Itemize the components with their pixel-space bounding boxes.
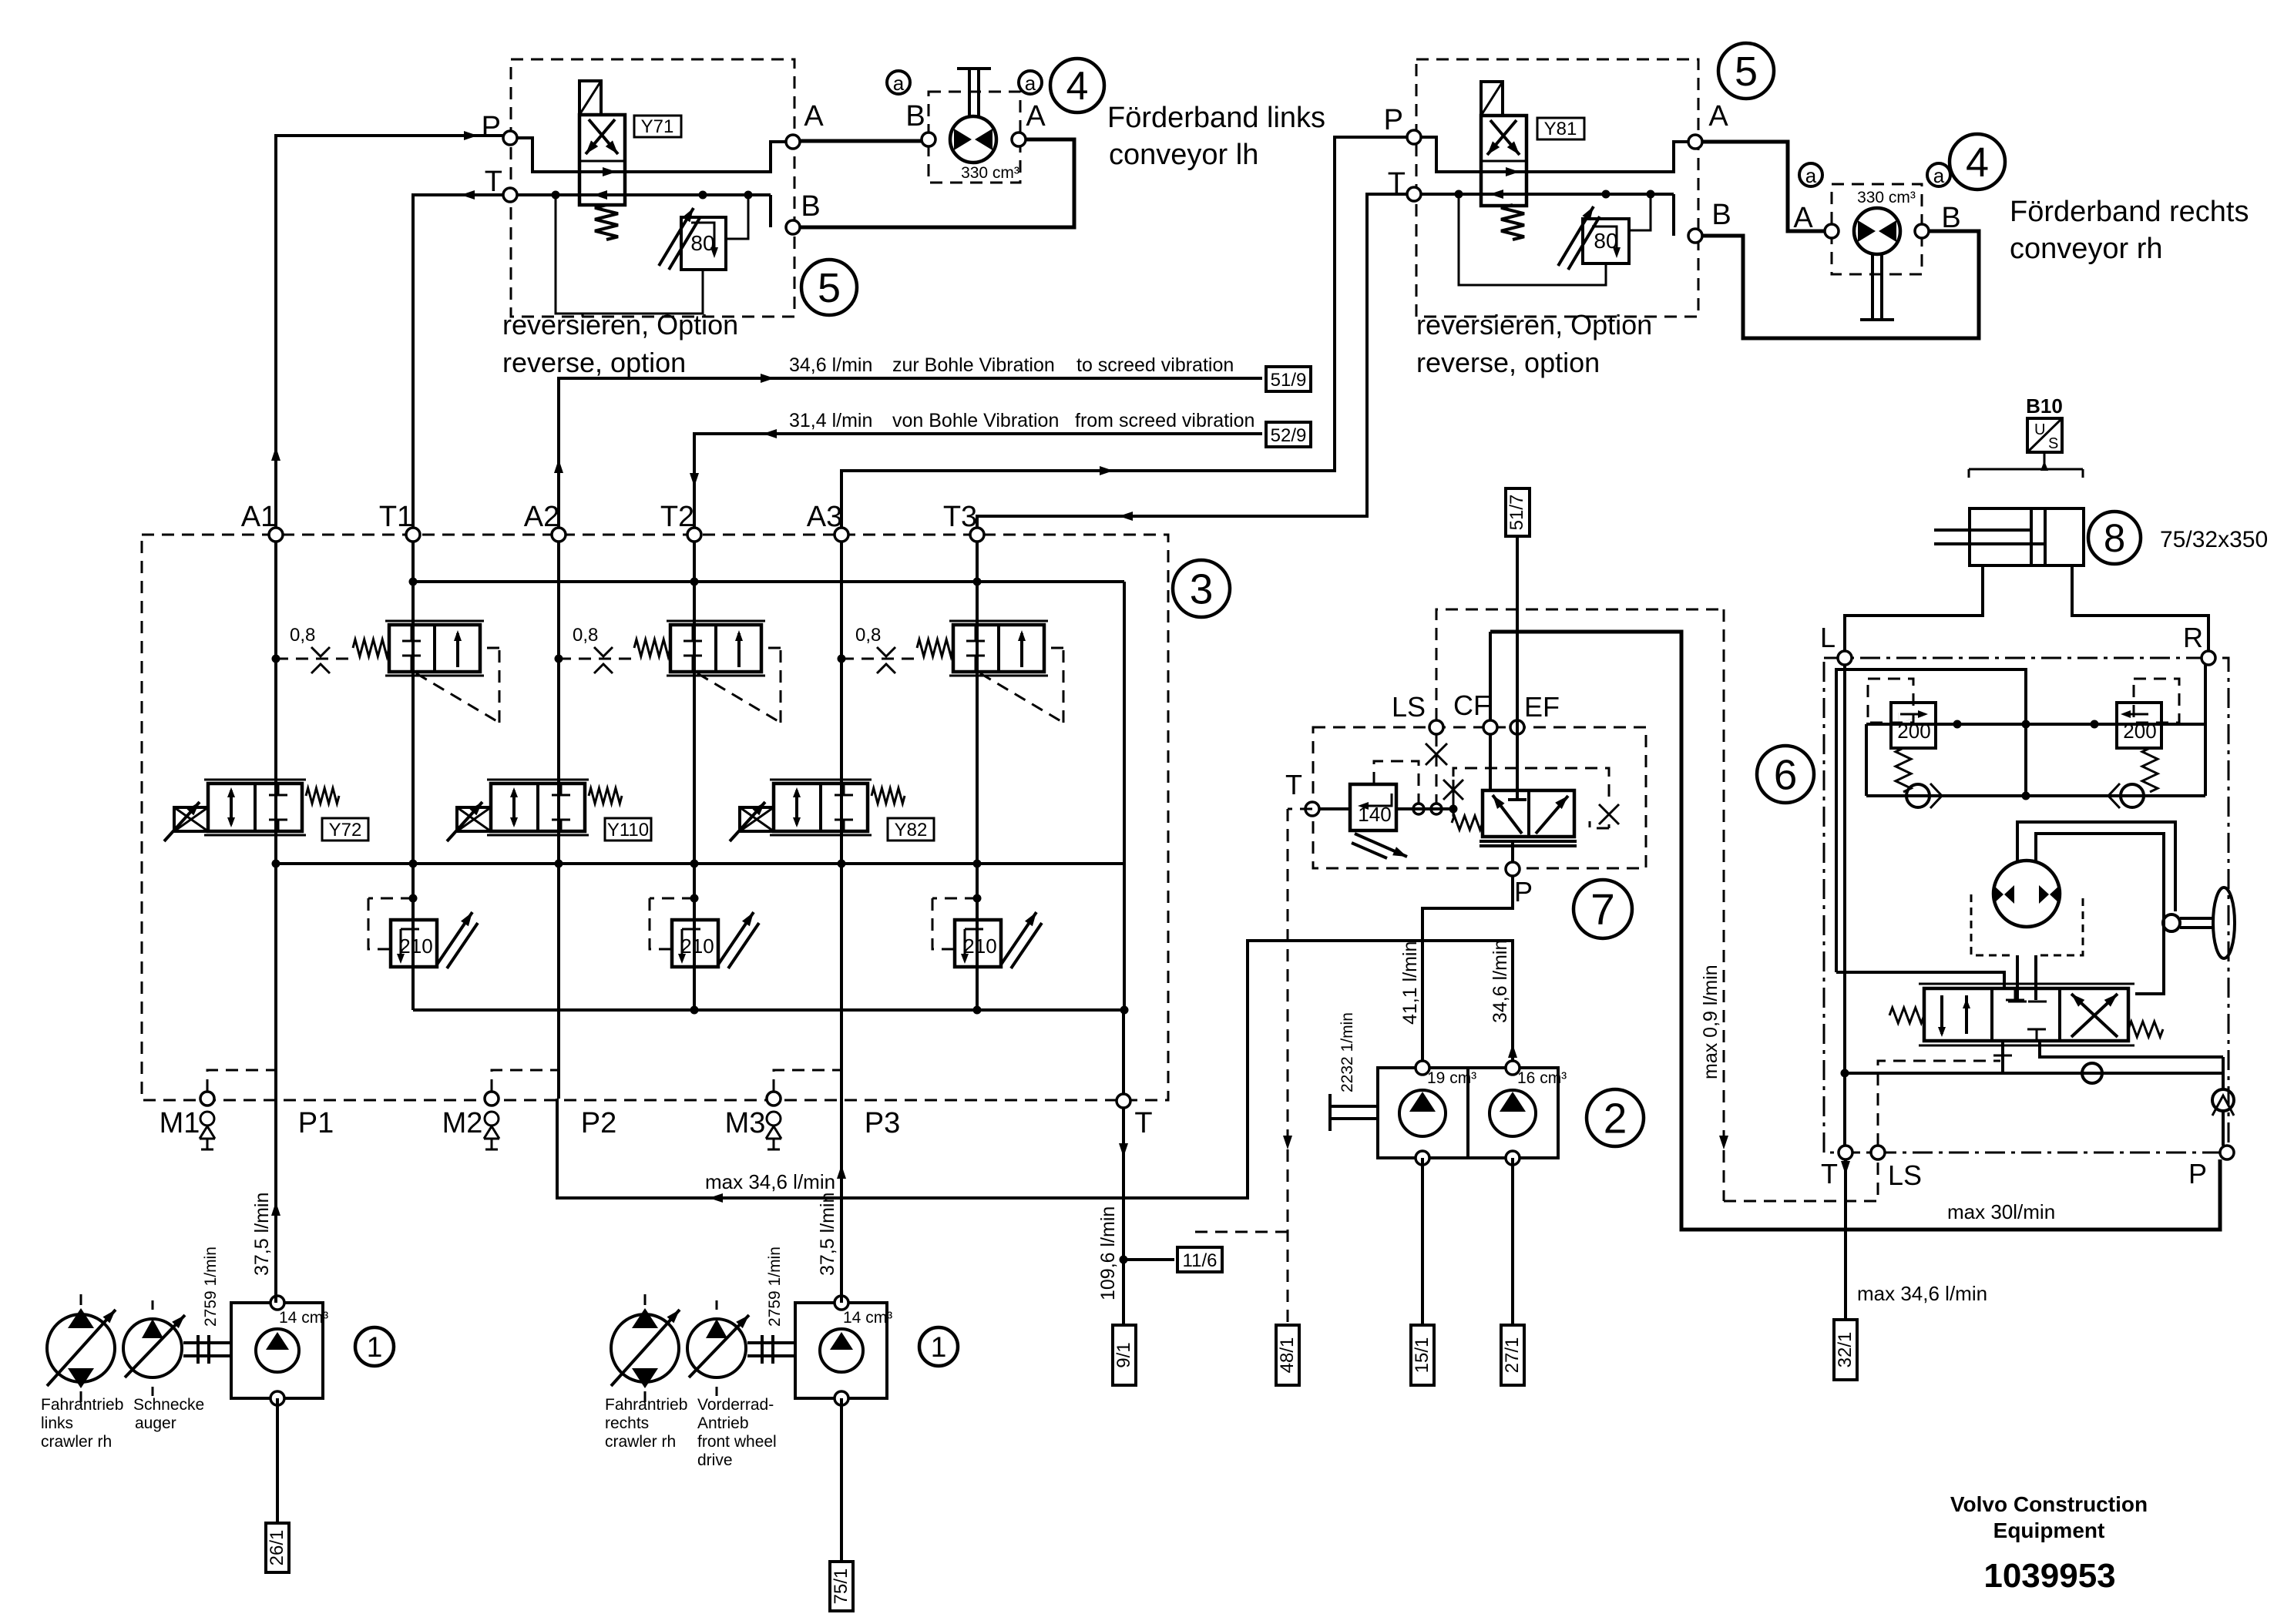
wire T to T1 riser (413, 195, 503, 535)
wire B to T right (1672, 194, 1675, 236)
variable arrow relief 80 right (1558, 206, 1594, 266)
hydraulic motor circle right (1854, 208, 1900, 254)
wire P3 riser to pump (840, 1099, 843, 1303)
label box Y72 (322, 818, 368, 841)
wire pump to 27/1 (1511, 1158, 1514, 1325)
variable arrow through relief 80 (659, 208, 694, 266)
steering feed to spool (1836, 972, 2004, 988)
test coupling symbol (200, 1112, 214, 1126)
circle 6 (1757, 746, 1814, 803)
svg-text:4: 4 (1066, 64, 1089, 109)
svg-text:27/1: 27/1 (1502, 1337, 1523, 1374)
cylinder 8 body (1970, 508, 2084, 565)
svg-text:37,5 l/min: 37,5 l/min (817, 1193, 838, 1276)
wire A3 to right valve P (841, 137, 1407, 535)
svg-text:B10: B10 (2026, 394, 2063, 418)
port T3 (970, 528, 984, 542)
svg-text:2232 1/min: 2232 1/min (1338, 1012, 1356, 1092)
valve Y72 solenoid (174, 807, 208, 831)
connector box 75/1 (830, 1562, 853, 1611)
gear pump circle 14cm3 (256, 1329, 299, 1372)
svg-text:from screed vibration: from screed vibration (1075, 410, 1254, 431)
svg-text:Antrieb: Antrieb (697, 1414, 749, 1432)
T bus steering (1845, 1072, 2223, 1075)
pilot dashed line section 3 (841, 658, 919, 660)
valve Y71 body (579, 115, 625, 205)
svg-text:LS: LS (1888, 1159, 1922, 1191)
wire pump to 15/1 (1421, 1158, 1424, 1325)
relief valve 80 right box (1583, 219, 1629, 263)
svg-text:A2: A2 (524, 501, 559, 533)
crossed arrows in Y71 upper cell (586, 119, 615, 154)
svg-text:16 cm³: 16 cm³ (1517, 1069, 1567, 1087)
svg-text:Y71: Y71 (641, 116, 674, 137)
sensor bracket (1969, 468, 2083, 471)
wire valve A right to motor A (1702, 142, 1825, 231)
svg-text:a: a (1025, 72, 1036, 95)
svg-text:1039953: 1039953 (1983, 1557, 2115, 1595)
port T of block 3 (1117, 1094, 1130, 1108)
circle 3 (1173, 560, 1230, 617)
svg-text:reverse, option: reverse, option (1416, 347, 1600, 378)
relief bus steering (1866, 723, 2205, 726)
svg-text:P: P (1384, 104, 1403, 136)
svg-text:CF: CF (1453, 690, 1490, 721)
port EF block7 (1510, 720, 1524, 734)
svg-text:34,6 l/min: 34,6 l/min (789, 354, 872, 376)
CF riser (1489, 632, 1492, 720)
circle 4 right (1950, 134, 2005, 190)
relief valve 140 box (1350, 784, 1396, 830)
svg-text:51/9: 51/9 (1271, 370, 1307, 391)
port R (2202, 651, 2215, 665)
svg-text:T2: T2 (660, 501, 694, 533)
svg-text:drive: drive (697, 1451, 733, 1469)
wire pump to connector (276, 1398, 279, 1523)
port T2 (687, 528, 701, 542)
test coupling symbol (485, 1112, 499, 1126)
check valve left steering (1906, 784, 1930, 807)
valve Y110 spring (589, 788, 622, 804)
valve Y82 arrows (795, 790, 798, 824)
port B left valve (786, 220, 800, 234)
svg-text:reversieren, Option: reversieren, Option (502, 309, 738, 341)
reducing valve symbols section 2 (692, 625, 694, 641)
dashed pilot to M port (492, 1070, 559, 1092)
svg-text:T: T (1134, 1107, 1152, 1139)
arrow inside relief 80 right (1592, 226, 1617, 254)
svg-text:210: 210 (963, 934, 996, 958)
reducing valve pilot dash section 2 (697, 673, 781, 723)
svg-text:max 34,6 l/min: max 34,6 l/min (705, 1170, 835, 1193)
wire motor B loop right (1702, 231, 1979, 338)
valve Y110 arrows (512, 790, 516, 824)
circle 2 (1587, 1089, 1644, 1146)
relief valve 210 section 1 pilot dash (368, 898, 413, 900)
circle 7 (1574, 880, 1632, 938)
wire T line through right valve (1421, 193, 1674, 196)
svg-text:Y72: Y72 (329, 820, 362, 841)
measuring port M1 (200, 1092, 214, 1106)
valve Y72 arrows (230, 790, 233, 824)
right edge of inner block (1123, 582, 1126, 1010)
valve Y82 spring (872, 788, 905, 804)
pilot loop relief 80 right (1459, 194, 1606, 285)
inline check valve steering (2082, 1063, 2102, 1083)
connector box 51/7 (1506, 488, 1530, 536)
svg-text:M2: M2 (442, 1107, 483, 1139)
svg-text:reversieren, Option: reversieren, Option (1416, 309, 1652, 341)
relief valve 210 section 2 pilot dash (650, 898, 694, 900)
wire T down to 9/1 (1122, 1108, 1125, 1325)
dash-dot boundary of steering block 6 (1824, 658, 2229, 1153)
relief valve 210 section 2 box (672, 920, 718, 967)
valve Y82 solenoid (740, 807, 774, 831)
connector box 48/1 (1276, 1325, 1299, 1385)
priority valve arrows (1493, 795, 1522, 834)
port T left valve (503, 188, 517, 202)
wire column T3 (976, 542, 979, 1010)
connector box 11/6 (1177, 1247, 1222, 1272)
svg-text:4: 4 (1966, 139, 1989, 186)
svg-text:Förderband rechts: Förderband rechts (2010, 196, 2249, 228)
svg-text:A: A (1708, 100, 1728, 133)
steering inner feed lines (1836, 669, 2026, 972)
reducing valve body section 2 (670, 625, 761, 672)
main variable pump circle (611, 1314, 679, 1382)
svg-text:52/9: 52/9 (1271, 425, 1307, 446)
wire von Bohle Vibration to T2 (694, 434, 1262, 535)
gerotor frame dashed (1971, 894, 2013, 955)
EF line into valve (1516, 536, 1519, 800)
port T block7 (1305, 802, 1319, 816)
arrow on P feed (464, 131, 478, 140)
motor shaft left (968, 69, 971, 117)
small circle a left1 (887, 71, 910, 94)
svg-text:reverse, option: reverse, option (502, 347, 686, 378)
reducing valve symbols section 3 (975, 625, 977, 641)
svg-text:P1: P1 (298, 1107, 334, 1139)
throttle to pilot (1453, 780, 1455, 809)
svg-text:max 0,9 l/min: max 0,9 l/min (1700, 965, 1721, 1079)
svg-text:von Bohle Vibration: von Bohle Vibration (892, 410, 1059, 431)
connector box 52/9 (1266, 422, 1311, 447)
test coupling symbol (767, 1112, 781, 1126)
svg-text:to screed vibration: to screed vibration (1076, 354, 1234, 376)
solenoid of valve Y71 (579, 81, 601, 115)
svg-text:auger: auger (135, 1414, 176, 1432)
motor port B left (922, 133, 935, 146)
hydraulic motor circle left (950, 116, 996, 163)
pump 19cm3 circle (1399, 1090, 1446, 1136)
motor 330cm3 left dashed box (929, 92, 1020, 183)
aux pump circle (687, 1319, 746, 1377)
svg-text:31,4 l/min: 31,4 l/min (789, 410, 872, 431)
svg-text:a: a (1805, 164, 1817, 187)
pilot loop relief 80 to T line (556, 195, 703, 314)
svg-text:B: B (1711, 199, 1731, 231)
aux pump circle (123, 1319, 182, 1377)
svg-text:rechts: rechts (605, 1414, 649, 1432)
spool underline block7 (1480, 840, 1577, 843)
svg-text:a: a (1933, 164, 1945, 187)
LS dashed internal steering (1878, 1061, 2000, 1146)
T drain dashed to 48/1 (1288, 808, 1312, 810)
steering wheel (2213, 887, 2235, 958)
svg-text:34,6 l/min: 34,6 l/min (1490, 940, 1511, 1023)
spool bottom to T bus (2001, 1041, 2004, 1073)
wire B to T line (769, 195, 772, 227)
gerotor feedback lines (2017, 822, 2175, 911)
wire column A2 (557, 542, 560, 1099)
sensor B10 box (2027, 418, 2062, 452)
solenoid valve Y82 body (774, 783, 868, 831)
small circle a right1 (1799, 163, 1822, 186)
wire zur Bohle Vibration from A2 (559, 378, 1262, 535)
svg-text:Equipment: Equipment (1993, 1518, 2105, 1542)
pump 16cm3 circle (1490, 1090, 1536, 1136)
motor port B right (1915, 224, 1929, 238)
spool top links (2016, 955, 2019, 1000)
relief valve 200 right (2117, 703, 2161, 748)
reducing valve section 1 spring (353, 639, 389, 656)
spring of priority valve (1452, 816, 1483, 830)
gear pump circle 14cm3 (820, 1329, 863, 1372)
port P steering (2220, 1146, 2234, 1159)
steering inner left column (1843, 665, 1846, 1146)
circle 5 left (801, 260, 857, 315)
svg-text:80: 80 (690, 231, 714, 255)
connector box 51/9 (1266, 367, 1311, 391)
dashed box of block 7 (1313, 727, 1646, 868)
svg-text:210: 210 (680, 934, 714, 958)
cylinder piston (2030, 508, 2033, 565)
svg-text:U: U (2034, 421, 2045, 438)
svg-text:51/7: 51/7 (1506, 495, 1527, 531)
tandem pump box (1378, 1068, 1558, 1158)
pump unit box at x360 (231, 1303, 323, 1398)
svg-text:1: 1 (367, 1331, 383, 1363)
port CF block7 (1483, 720, 1497, 734)
svg-text:A: A (804, 100, 824, 133)
label box Y81 (1537, 118, 1584, 139)
wire pump to connector (840, 1398, 843, 1562)
main variable pump circle (47, 1314, 115, 1382)
svg-text:75/1: 75/1 (831, 1569, 851, 1605)
reducing valve section 2 spring (634, 639, 670, 656)
svg-text:R: R (2183, 622, 2203, 653)
relief 210 variable arrow section 2 (718, 912, 754, 965)
svg-text:19 cm³: 19 cm³ (1427, 1069, 1476, 1087)
relief 200 right pilot dash (2134, 679, 2179, 723)
wire T line through valve (517, 193, 771, 196)
svg-text:6: 6 (1774, 750, 1798, 798)
motor 330cm3 right dashed box (1832, 184, 1922, 274)
svg-text:Y82: Y82 (895, 820, 928, 841)
svg-text:crawler rh: crawler rh (605, 1433, 676, 1451)
svg-text:Förderband links: Förderband links (1107, 102, 1325, 134)
wire column A1 (274, 542, 277, 1099)
svg-text:37,5 l/min: 37,5 l/min (251, 1193, 273, 1276)
junction dots on T line (552, 191, 560, 200)
relief valve 210 section 1 box (391, 920, 437, 967)
svg-text:2759 1/min: 2759 1/min (202, 1247, 220, 1327)
wire T steering to 32/1 (1844, 1159, 1847, 1320)
svg-text:front wheel: front wheel (697, 1433, 777, 1451)
svg-text:32/1: 32/1 (1835, 1332, 1856, 1368)
svg-text:0,8: 0,8 (290, 625, 315, 646)
svg-text:330 cm³: 330 cm³ (1857, 189, 1916, 206)
top bus of block 3 (413, 580, 1124, 583)
arrow on T return (461, 190, 475, 200)
pump shaft (183, 1341, 231, 1344)
relief 200 left pilot dash (1868, 679, 1913, 723)
svg-text:LS: LS (1392, 691, 1426, 723)
wire P through valve to A (517, 138, 786, 172)
reducing valve pilot dash section 1 (416, 673, 499, 723)
svg-text:B: B (905, 100, 925, 133)
svg-text:T3: T3 (943, 501, 977, 533)
port A3 (835, 528, 848, 542)
arrow inside relief 80 (691, 223, 714, 254)
reducing valve section 3 spring (917, 639, 953, 656)
svg-text:P: P (2188, 1158, 2207, 1189)
svg-text:M3: M3 (725, 1107, 766, 1139)
dashed pilot to M port (207, 1070, 276, 1092)
circled 1 (919, 1327, 958, 1366)
port A right valve (1688, 135, 1702, 149)
check valve right steering (2121, 784, 2144, 807)
label box Y82 (888, 818, 934, 841)
motor port A left (1012, 133, 1026, 146)
svg-text:75/32x350: 75/32x350 (2160, 527, 2268, 552)
svg-text:max 34,6 l/min: max 34,6 l/min (1857, 1282, 1987, 1305)
P column with check valve (2222, 1057, 2225, 1089)
connector box 9/1 (1113, 1325, 1136, 1385)
circle 8 (2088, 512, 2141, 564)
wire A1 riser to P (276, 136, 503, 535)
svg-text:A: A (1026, 100, 1046, 133)
wire T column of block3 (1122, 1010, 1125, 1094)
svg-text:L: L (1820, 622, 1836, 653)
svg-text:Fahrantrieb: Fahrantrieb (605, 1396, 687, 1414)
solenoid valve Y110 body (491, 783, 585, 831)
svg-text:26/1: 26/1 (267, 1530, 287, 1566)
relief valve 210 section 3 box (955, 920, 1001, 967)
port P block7 (1506, 862, 1520, 876)
relief valve 200 left (1891, 703, 1936, 748)
spool right cell crossed arrows (2071, 994, 2118, 1037)
svg-text:14 cm³: 14 cm³ (279, 1309, 328, 1327)
valve Y72 spring (306, 788, 339, 804)
svg-text:T: T (1388, 167, 1406, 200)
pump unit box at x1092 (795, 1303, 887, 1398)
connector box 26/1 (266, 1523, 289, 1572)
reducing valve pilot dash section 3 (980, 673, 1063, 723)
port T right valve (1407, 187, 1421, 201)
port L (1838, 651, 1852, 665)
port T steering (1839, 1146, 1852, 1159)
port P left valve (503, 131, 517, 145)
pilot dashed line section 2 (559, 658, 636, 660)
svg-text:B: B (801, 190, 820, 223)
circled 1 (355, 1327, 394, 1366)
svg-text:210: 210 (399, 934, 432, 958)
relief 200 left spring (1896, 748, 1911, 792)
circle 4 left (1050, 59, 1104, 112)
valve Y81 body (1481, 116, 1527, 206)
svg-text:3: 3 (1190, 565, 1214, 612)
LS dashed riser inside block7 (1436, 734, 1438, 804)
wire cylinder to R (2072, 565, 2208, 651)
small circle a left2 (1019, 71, 1042, 94)
svg-text:48/1: 48/1 (1277, 1337, 1298, 1374)
svg-text:Y110: Y110 (607, 820, 649, 841)
svg-text:9/1: 9/1 (1113, 1342, 1134, 1367)
port T1 (406, 528, 420, 542)
svg-text:P: P (1514, 876, 1533, 908)
port A2 (552, 528, 566, 542)
spool left cell arrows (1940, 995, 1943, 1034)
reducing valve body section 1 (389, 625, 480, 672)
svg-text:109,6 l/min: 109,6 l/min (1097, 1206, 1119, 1300)
circle 5 right (1718, 43, 1774, 99)
gerotor metering unit (1993, 861, 2060, 927)
adjust arrow below 140 (1355, 834, 1407, 857)
spring below Y81 (1501, 205, 1524, 240)
wire cylinder to L (1845, 565, 1983, 651)
svg-text:7: 7 (1590, 885, 1615, 934)
svg-text:M1: M1 (160, 1107, 200, 1139)
pilot dashed line section 1 (276, 658, 354, 660)
svg-text:A3: A3 (807, 501, 842, 533)
svg-text:Volvo Construction: Volvo Construction (1950, 1492, 2148, 1516)
relief 210 variable arrow section 3 (1001, 912, 1036, 965)
spring below Y71 (595, 205, 618, 240)
relief valve 210 section 3 pilot dash (932, 898, 977, 900)
port P right valve (1407, 130, 1421, 144)
LS dashed line max 0,9 l/min (1436, 609, 1724, 720)
motor triangles left (954, 129, 972, 150)
wire column T2 (693, 542, 696, 1010)
svg-text:5: 5 (818, 265, 841, 311)
svg-text:14 cm³: 14 cm³ (843, 1309, 892, 1327)
measuring port M3 (767, 1092, 781, 1106)
svg-text:0,8: 0,8 (573, 625, 598, 646)
svg-text:P3: P3 (865, 1107, 900, 1139)
pump shaft (747, 1341, 795, 1344)
spool springs (1889, 1008, 1924, 1023)
svg-text:2: 2 (1604, 1094, 1627, 1142)
main T line inside block7 (1319, 807, 1350, 810)
priority valve body (1483, 790, 1574, 837)
bottom collector bus of block 3 (413, 1008, 1124, 1012)
svg-text:EF: EF (1524, 691, 1560, 723)
wire P2 max 34,6 l/min loop (557, 941, 1513, 1198)
svg-text:15/1: 15/1 (1412, 1337, 1432, 1374)
motor triangles right (1858, 220, 1876, 242)
connector box 15/1 (1411, 1325, 1434, 1385)
svg-text:5: 5 (1735, 49, 1758, 95)
port A left valve (786, 135, 800, 149)
connector box 27/1 (1501, 1325, 1524, 1385)
svg-text:T: T (1285, 769, 1302, 800)
svg-text:P: P (482, 111, 501, 143)
wire motor A loop to valve B (800, 139, 1074, 227)
middle bus of block 3 (276, 862, 1124, 865)
steering spool valve body (1924, 988, 2128, 1041)
wire P through right valve to A (1421, 137, 1688, 172)
